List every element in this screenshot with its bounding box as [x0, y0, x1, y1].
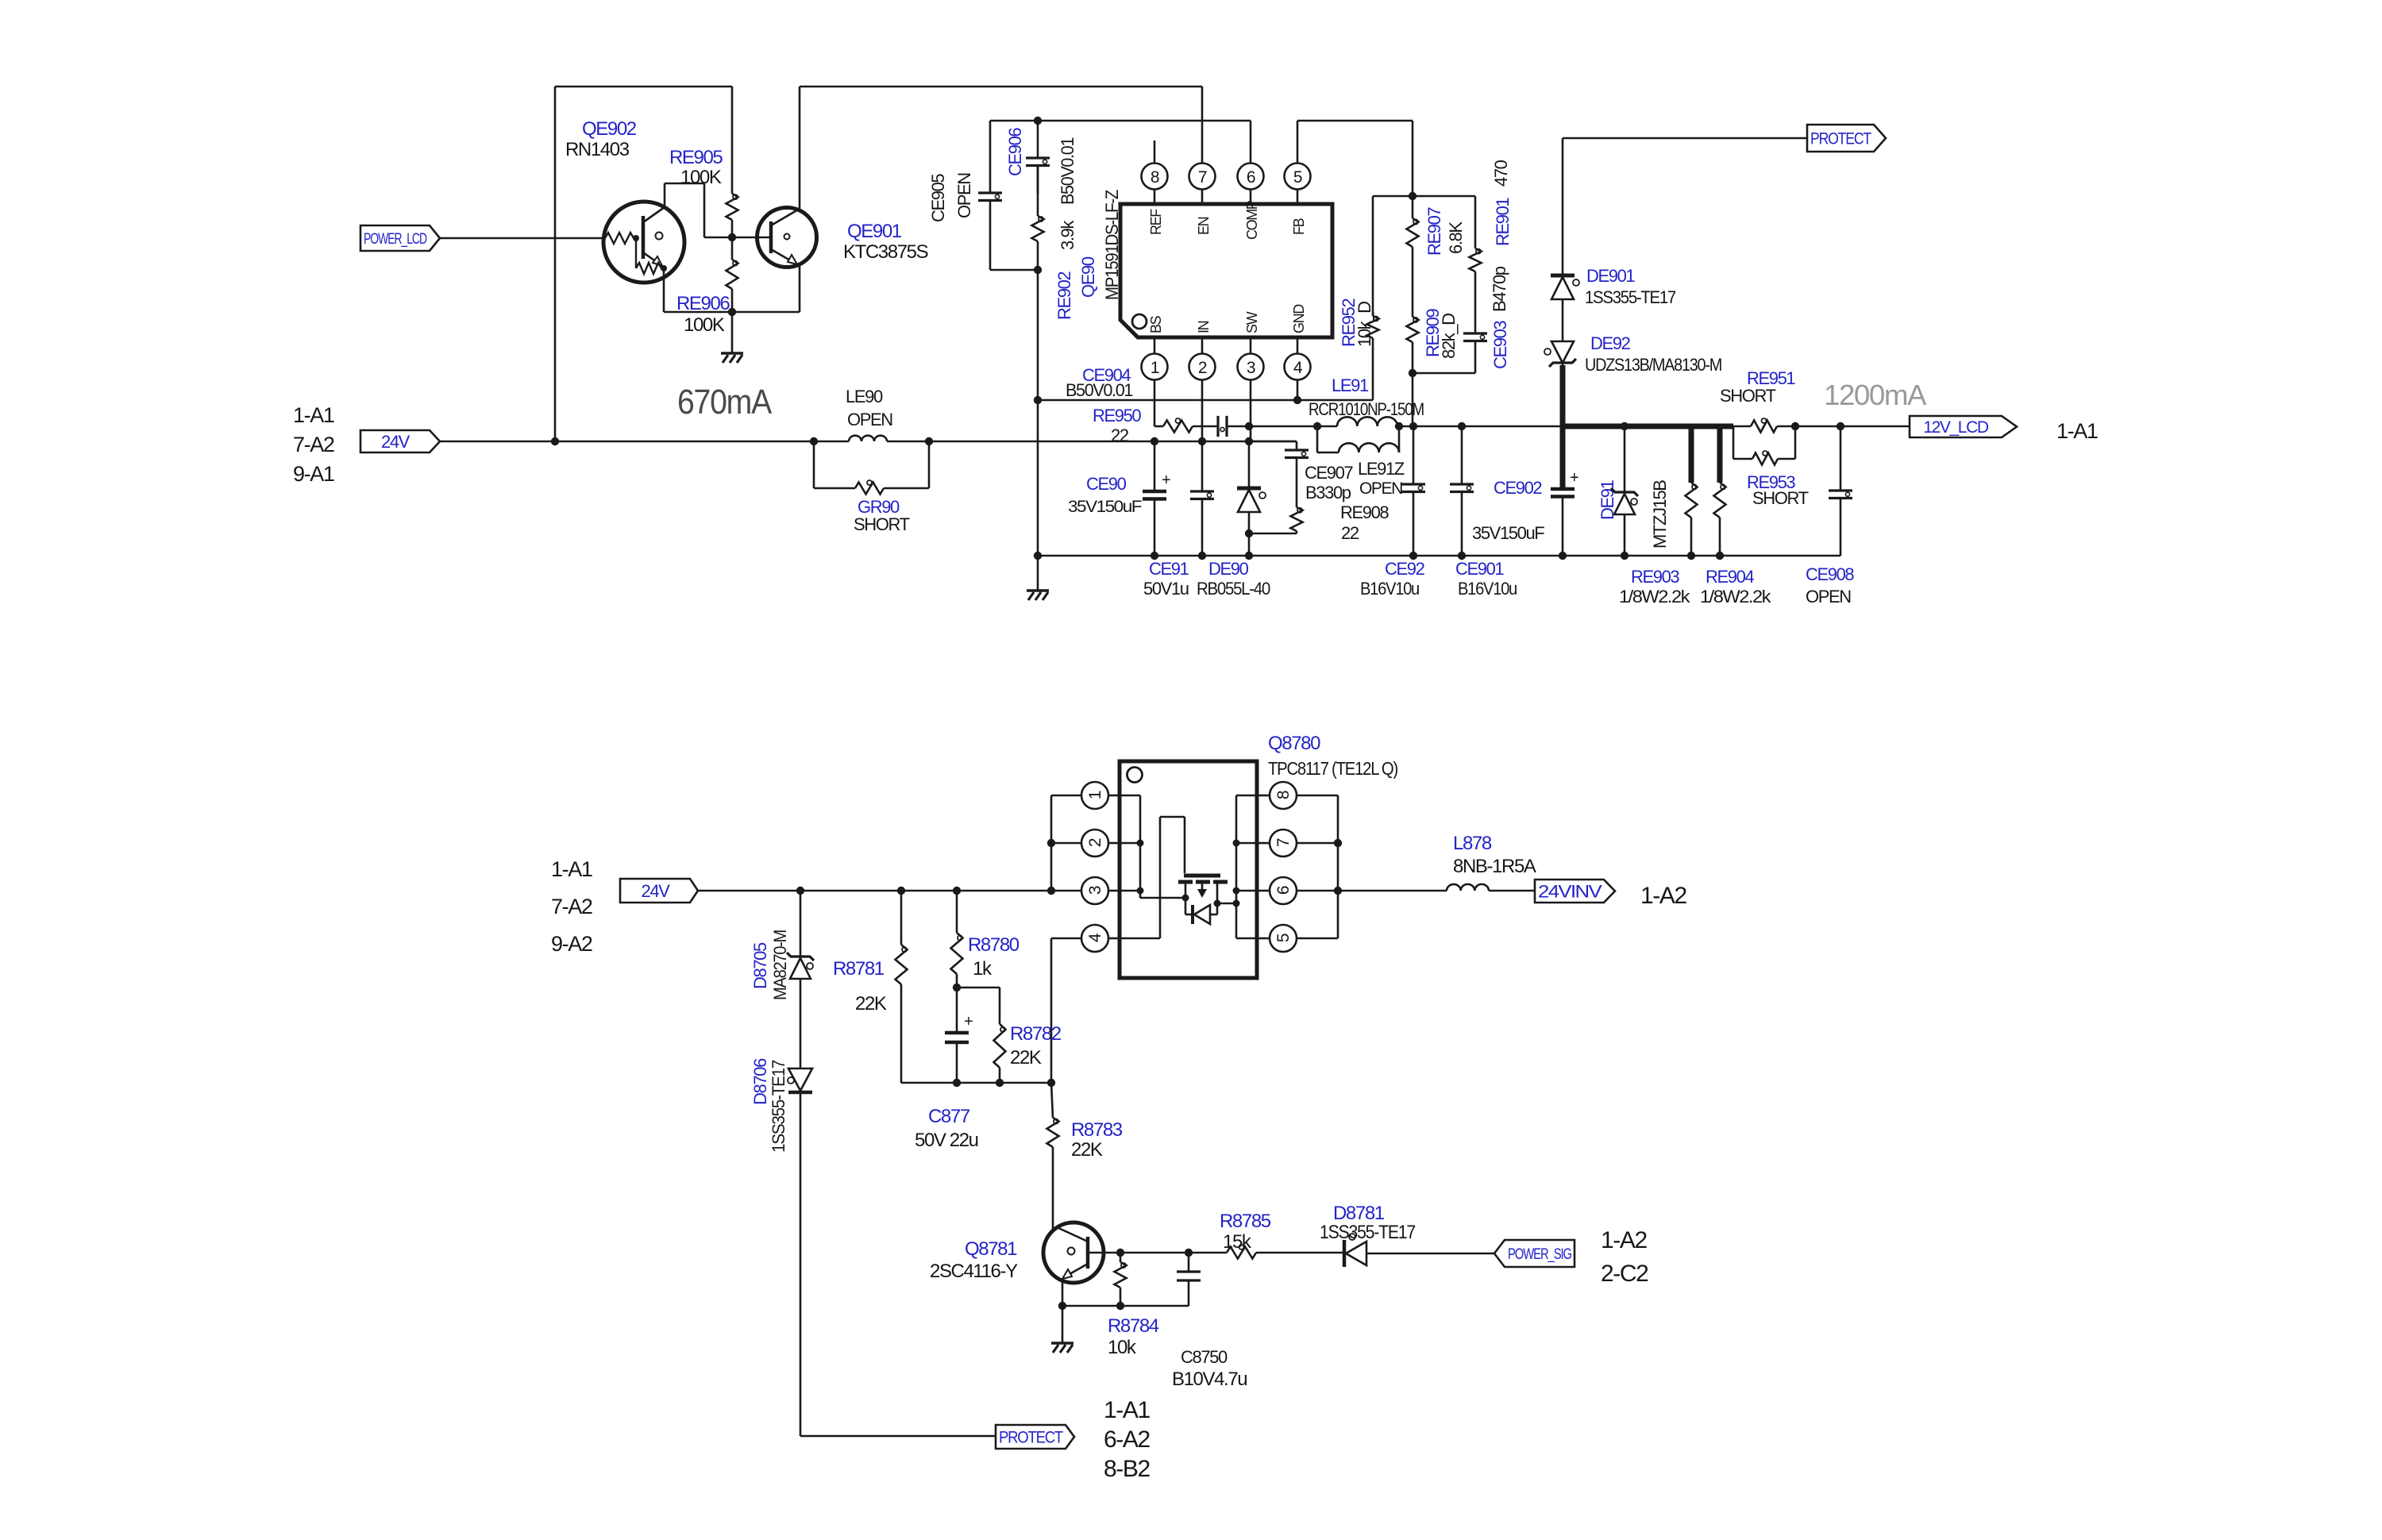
pin label EN	[1196, 217, 1212, 235]
label R8784	[1108, 1315, 1159, 1337]
svg-text:1-A1: 1-A1	[1104, 1397, 1150, 1423]
svg-text:QE902: QE902	[582, 118, 637, 140]
label C877	[928, 1106, 970, 1127]
svg-text:CE908: CE908	[1806, 564, 1854, 584]
capacitor C8750 B10V4.7u	[1177, 1253, 1201, 1306]
svg-text:RE906: RE906	[676, 293, 730, 314]
node GR90 left	[810, 437, 818, 445]
node C8750 top	[1185, 1249, 1193, 1257]
svg-text:15k: 15k	[1223, 1231, 1252, 1253]
svg-text:82k_D: 82k_D	[1439, 314, 1459, 359]
label L878	[1453, 833, 1492, 854]
pin 5 circle	[1285, 164, 1311, 205]
svg-text:RE907: RE907	[1424, 207, 1444, 256]
node DE90 anode	[1245, 529, 1253, 537]
label CE92 value B16V10u	[1360, 579, 1419, 599]
svg-text:6-A2: 6-A2	[1104, 1426, 1150, 1453]
svg-text:D8781: D8781	[1333, 1203, 1385, 1224]
svg-text:OPEN: OPEN	[1359, 479, 1402, 498]
node bottom rail x1968	[1559, 552, 1567, 560]
label CE92	[1385, 559, 1425, 579]
node 24V/QE902-box	[551, 437, 559, 445]
wire COMP drop to pin6	[1250, 121, 1252, 164]
label QE90	[1078, 256, 1098, 298]
text pin ref 9-A2 bottom	[551, 932, 592, 956]
node bottom rail x1307	[1034, 552, 1042, 560]
svg-text:9-A1: 9-A1	[293, 462, 334, 486]
svg-text:1: 1	[1151, 359, 1159, 377]
node R8782 bottom	[996, 1079, 1004, 1087]
mosfet Q8780 body diode	[1185, 898, 1217, 924]
wire QE902 collector to node	[704, 237, 757, 239]
label CE906 value B50V0.01	[1058, 137, 1077, 205]
label R8785 value 15k	[1223, 1231, 1252, 1253]
node pin bus top	[1047, 887, 1055, 895]
svg-text:QE90: QE90	[1078, 256, 1098, 298]
text pin ref 7-A2	[293, 433, 334, 456]
node LE91 left	[1313, 422, 1321, 430]
mosfet Q8780 gate bar	[1184, 874, 1220, 878]
pin 6 circle	[1238, 164, 1264, 205]
node bottom rail x1780	[1409, 552, 1417, 560]
svg-text:12V_LCD: 12V_LCD	[1923, 418, 1988, 437]
svg-text:RE905: RE905	[669, 147, 723, 168]
svg-text:1-A1: 1-A1	[551, 857, 592, 881]
svg-text:3: 3	[1086, 886, 1104, 895]
svg-text:LE90: LE90	[846, 387, 883, 406]
transistor QE902	[603, 183, 704, 312]
wire pin3 stub	[1250, 380, 1252, 442]
label CE905 OPEN	[954, 173, 974, 218]
svg-text:BS: BS	[1148, 315, 1164, 333]
svg-text:8NB-1R5A: 8NB-1R5A	[1453, 856, 1536, 877]
svg-text:7: 7	[1198, 168, 1207, 187]
Q8780 pin 4 circle	[1081, 925, 1120, 952]
node GND line left	[1034, 396, 1042, 404]
label RE908 value 22	[1341, 523, 1359, 543]
wire base to R8785	[1120, 1252, 1227, 1254]
label CE905	[928, 174, 948, 222]
svg-text:L878: L878	[1453, 833, 1492, 854]
svg-text:CE90: CE90	[1086, 474, 1127, 494]
node CE906 top	[1034, 117, 1042, 125]
diode D8781 1SS355-TE17	[1344, 1234, 1494, 1267]
svg-text:UDZS13B/MA8130-M: UDZS13B/MA8130-M	[1585, 355, 1721, 375]
zener DE92 UDZS13B	[1544, 341, 1576, 426]
svg-text:1SS355-TE17: 1SS355-TE17	[1320, 1222, 1416, 1243]
wire QE901 emitter drop	[798, 264, 800, 312]
svg-text:RE908: RE908	[1340, 502, 1389, 522]
label DE901	[1586, 266, 1635, 286]
text pin ref 2-C2 sig	[1601, 1261, 1648, 1287]
node bottom rail x1573	[1245, 552, 1253, 560]
node emitter rail left	[1058, 1302, 1066, 1310]
wire QE902 box left	[554, 87, 557, 441]
mosfet Q8780 channel	[1178, 880, 1228, 884]
svg-text:SW: SW	[1244, 311, 1260, 333]
pin label COMP	[1244, 200, 1260, 240]
label DE90 value RB055L-40	[1197, 579, 1270, 599]
wire pin4 branch	[1051, 938, 1081, 1083]
node Q8780 int drain	[1233, 900, 1240, 907]
svg-text:7-A2: 7-A2	[551, 895, 592, 918]
wire FB rail	[1297, 120, 1413, 122]
wire FB divider drop	[1412, 121, 1414, 196]
node R8781 top	[897, 887, 905, 895]
text pin ref 6-A2 protect	[1104, 1426, 1150, 1453]
text 670mA	[677, 383, 773, 422]
svg-text:50V 22u: 50V 22u	[915, 1130, 978, 1151]
label CE903 value B470p	[1490, 266, 1509, 312]
svg-text:Q8780: Q8780	[1268, 733, 1320, 754]
Q8780 pin 6 circle	[1257, 877, 1297, 904]
label R8783	[1071, 1119, 1123, 1141]
svg-text:22K: 22K	[855, 993, 887, 1014]
svg-text:CE901: CE901	[1455, 559, 1504, 579]
svg-text:RE903: RE903	[1631, 567, 1679, 587]
pin label SW	[1244, 311, 1260, 333]
node pin4 GND	[1293, 396, 1301, 404]
label RE906 value 100K	[684, 314, 725, 336]
svg-text:REF: REF	[1148, 209, 1164, 235]
wire POWER_LCD to QE902 base	[440, 237, 605, 240]
IC pin1 marker circle	[1132, 314, 1147, 329]
svg-text:8: 8	[1274, 791, 1293, 799]
svg-text:SHORT: SHORT	[1752, 488, 1809, 508]
wire Q8781 emitter drop	[1062, 1280, 1064, 1306]
label DE91 value MTZJ15B	[1650, 480, 1670, 549]
inductor LE91 second winding	[1339, 443, 1399, 452]
pin label FB	[1291, 218, 1307, 235]
pin label REF	[1148, 209, 1164, 235]
svg-text:B470p: B470p	[1490, 266, 1509, 312]
wire FB drop to pin5	[1297, 121, 1299, 164]
node FB divider top	[1409, 192, 1416, 200]
wire output rail left	[1399, 425, 1563, 428]
net label 24VINV	[1535, 880, 1615, 903]
svg-text:OPEN: OPEN	[954, 173, 974, 218]
label D8705	[750, 942, 770, 989]
wire LE91 parallel branch	[1317, 426, 1399, 452]
svg-text:3.9k: 3.9k	[1058, 220, 1077, 250]
node pin4 drop	[1047, 1079, 1055, 1087]
wire pin1 branch	[1051, 795, 1081, 891]
wire emitter rail	[664, 311, 800, 314]
text pin ref 1-A2 sig	[1601, 1227, 1647, 1253]
node CE908 top	[1837, 422, 1844, 430]
svg-text:RN1403: RN1403	[565, 139, 630, 160]
wire CE905 bottom join	[990, 269, 1038, 271]
label DE91	[1598, 479, 1617, 520]
wire FB to output	[1412, 373, 1414, 426]
resistor RE904 2.2k	[1714, 483, 1726, 556]
Q8780 pin 7 circle	[1257, 830, 1297, 857]
svg-text:C877: C877	[928, 1106, 970, 1127]
label RE902 value 3.9k	[1058, 220, 1077, 250]
svg-text:22K: 22K	[1010, 1047, 1042, 1068]
node compensation bottom	[1034, 266, 1042, 274]
wire RC bottom rail	[901, 1082, 1051, 1084]
wire pin4 stub	[1297, 380, 1299, 401]
label CE906	[1005, 128, 1025, 176]
svg-text:24V: 24V	[381, 432, 410, 452]
label CE91 value 50V1u	[1143, 579, 1189, 599]
node bottom rail x2046	[1621, 552, 1628, 560]
label RN1403	[565, 139, 630, 160]
label RE953	[1747, 472, 1795, 492]
ground below RE906	[721, 312, 743, 363]
node Q8780 int pin7	[1233, 840, 1240, 847]
label R8780	[968, 934, 1019, 956]
text pin ref 9-A1	[293, 462, 334, 486]
label RE904	[1706, 567, 1754, 587]
net label 12V_LCD	[1910, 416, 2017, 437]
label LE91Z	[1358, 459, 1405, 479]
resistor R8781 22K	[896, 891, 908, 1083]
svg-text:SHORT: SHORT	[1720, 386, 1776, 406]
transistor QE901	[757, 208, 817, 268]
label R8781 value 22K	[855, 993, 887, 1014]
svg-text:R8783: R8783	[1071, 1119, 1123, 1141]
svg-text:B16V10u: B16V10u	[1360, 579, 1419, 599]
label CE91	[1149, 559, 1189, 579]
resistor GR90 SHORT bypass	[814, 441, 929, 495]
svg-text:R8782: R8782	[1010, 1023, 1062, 1045]
svg-text:9-A2: 9-A2	[551, 932, 592, 956]
node SW pin3	[1245, 437, 1253, 445]
capacitor CE908 OPEN	[1829, 426, 1852, 556]
svg-text:DE90: DE90	[1208, 559, 1249, 579]
svg-text:B50V0.01: B50V0.01	[1058, 137, 1077, 205]
label D8781 value 1SS355-TE17	[1320, 1222, 1416, 1243]
resistor RE902 3.9k	[1032, 166, 1044, 271]
label LE91Z OPEN	[1359, 479, 1402, 498]
wire to PROTECT bottom	[800, 1435, 996, 1438]
svg-text:CE902: CE902	[1494, 478, 1542, 498]
label CE904 value B50V0.01	[1066, 380, 1133, 400]
label RE951	[1747, 368, 1795, 388]
svg-text:GND: GND	[1291, 304, 1307, 333]
label CE903	[1490, 321, 1510, 369]
wire output rail bold	[1563, 365, 1733, 489]
wire 24V rail	[440, 441, 1297, 443]
ground below Q8781	[1051, 1306, 1073, 1353]
capacitor CE907 B330p	[1285, 441, 1309, 507]
svg-text:1/8W2.2k: 1/8W2.2k	[1700, 587, 1772, 606]
zener DE91 MTZJ15B	[1611, 426, 1638, 556]
label RE950	[1093, 406, 1141, 425]
text pin ref 8-B2 protect	[1104, 1456, 1150, 1482]
wire pin1 stub	[1154, 380, 1156, 427]
svg-text:100K: 100K	[680, 167, 722, 188]
node bottom rail x1514	[1198, 552, 1206, 560]
svg-text:EN: EN	[1196, 217, 1212, 235]
svg-text:24V: 24V	[642, 881, 671, 901]
label RE953 SHORT	[1752, 488, 1809, 508]
label RE952 value 10k_D	[1355, 302, 1374, 347]
svg-text:1-A1: 1-A1	[2056, 419, 2098, 443]
Q8780 pin 3 circle	[1081, 877, 1120, 904]
svg-text:CE907: CE907	[1305, 463, 1353, 483]
svg-text:IN: IN	[1196, 321, 1212, 333]
label Q8780	[1268, 733, 1320, 754]
label D8706 value 1SS355-TE17	[769, 1060, 788, 1153]
svg-text:PROTECT: PROTECT	[1810, 130, 1871, 148]
label RE901 470	[1491, 160, 1511, 187]
wire 24V rail bottom	[698, 890, 1081, 892]
capacitor CE92 B16V10u	[1401, 426, 1425, 556]
text pin ref 1-A1 right	[2056, 419, 2098, 443]
svg-text:4: 4	[1086, 933, 1104, 942]
svg-text:5: 5	[1293, 168, 1302, 187]
svg-text:6: 6	[1247, 168, 1255, 187]
wire emitter rail bottom	[1062, 1305, 1189, 1307]
label RE905 value 100K	[680, 167, 722, 188]
label R8784 value 10k	[1108, 1337, 1137, 1358]
label L878 value 8NB-1R5A	[1453, 856, 1536, 877]
wire ground riser x1307	[1037, 270, 1039, 591]
mosfet Q8780 drain lead	[1214, 882, 1237, 907]
pin 8 circle	[1142, 164, 1168, 205]
label D8781	[1333, 1203, 1385, 1224]
node RE951 right	[1791, 422, 1799, 430]
svg-text:3: 3	[1247, 359, 1255, 377]
svg-text:100K: 100K	[684, 314, 725, 336]
text pin ref 1-A1	[293, 403, 334, 427]
label LE91	[1332, 375, 1369, 395]
label LE90 OPEN	[847, 410, 892, 429]
svg-text:2: 2	[1198, 359, 1207, 377]
resistor R8782 22K	[957, 988, 1006, 1083]
net label 24V (top)	[360, 430, 440, 452]
svg-text:B50V0.01: B50V0.01	[1066, 380, 1133, 400]
pin 3 circle	[1238, 337, 1264, 380]
node SW bootstrap	[1245, 422, 1253, 430]
text pin ref 1-A1 bottom	[551, 857, 592, 881]
node C877 bottom	[953, 1079, 961, 1087]
wire to L878	[1338, 890, 1447, 892]
wire QE901 collector riser	[799, 87, 801, 209]
svg-text:22: 22	[1111, 425, 1129, 445]
label C877 value 50V 22u	[915, 1130, 978, 1151]
svg-text:MTZJ15B: MTZJ15B	[1650, 480, 1670, 549]
label CE902	[1494, 478, 1542, 498]
label RE906	[676, 293, 730, 314]
Q8780 pin 1 circle	[1081, 782, 1120, 809]
label RE907	[1424, 207, 1444, 256]
net label PROTECT (bottom)	[996, 1425, 1074, 1449]
resistor R8785 15k	[1227, 1245, 1344, 1259]
label DE92 value	[1585, 355, 1721, 375]
inductor LE90 OPEN	[849, 436, 887, 441]
Q8780 pin 2 circle	[1081, 830, 1120, 857]
label CE901	[1455, 559, 1504, 579]
label GR90	[858, 497, 900, 517]
svg-text:OPEN: OPEN	[1806, 587, 1851, 606]
svg-text:7: 7	[1274, 838, 1293, 847]
transistor Q8781 2SC4116-Y	[1043, 1222, 1104, 1283]
svg-text:10k_D: 10k_D	[1355, 302, 1374, 347]
label RE950 value 22	[1111, 425, 1129, 445]
label D8705 value MA8270-M	[770, 930, 790, 1000]
diode DE90 RB055L-40	[1237, 441, 1266, 556]
wire Q8780 gate path	[1120, 817, 1185, 938]
svg-text:POWER_LCD: POWER_LCD	[364, 231, 426, 248]
label R8781	[833, 958, 885, 980]
label RE902	[1054, 271, 1074, 320]
svg-text:2SC4116-Y: 2SC4116-Y	[930, 1261, 1018, 1282]
label R8780 value 1k	[973, 958, 992, 980]
svg-text:FB: FB	[1291, 218, 1307, 235]
svg-text:22K: 22K	[1071, 1139, 1103, 1161]
svg-text:RB055L-40: RB055L-40	[1197, 579, 1270, 599]
node GR90 right	[925, 437, 933, 445]
svg-text:RE902: RE902	[1054, 271, 1074, 320]
text pin ref 7-A2 bottom	[551, 895, 592, 918]
svg-text:D8705: D8705	[750, 942, 770, 989]
label CE908 OPEN	[1806, 587, 1851, 606]
resistor RE906 100K	[727, 237, 738, 312]
capacitor CE902 35V150uF	[1551, 469, 1578, 556]
capacitor CE905 OPEN	[978, 121, 1002, 270]
wire QE902 box top	[555, 86, 732, 88]
node right bus pin7	[1334, 839, 1342, 847]
label DE92	[1590, 333, 1631, 353]
svg-text:R8784: R8784	[1108, 1315, 1159, 1337]
label R8785	[1220, 1211, 1271, 1232]
resistor RE903 2.2k	[1686, 483, 1698, 556]
wire output rail right	[1795, 425, 1910, 428]
diode DE901 1SS355-TE17	[1551, 275, 1579, 341]
svg-text:1-A1: 1-A1	[293, 403, 334, 427]
label QE902	[582, 118, 637, 140]
label DE90	[1208, 559, 1249, 579]
svg-text:LE91: LE91	[1332, 375, 1369, 395]
resistor RE951 SHORT	[1733, 418, 1795, 433]
node base/R8784	[1116, 1249, 1124, 1257]
label RE905	[669, 147, 723, 168]
net label 24V (bottom)	[620, 879, 698, 903]
diode D8706 1SS355-TE17	[788, 1068, 812, 1436]
svg-text:R8780: R8780	[968, 934, 1019, 956]
label R8783 value 22K	[1071, 1139, 1103, 1161]
wire Q8780 source bus	[1120, 795, 1185, 898]
svg-text:10k: 10k	[1108, 1337, 1137, 1358]
pin 1 circle	[1142, 337, 1168, 380]
pin 8 stub up	[1154, 141, 1156, 164]
label TPC8117	[1268, 758, 1398, 779]
svg-text:1-A2: 1-A2	[1640, 883, 1686, 909]
svg-text:6: 6	[1274, 886, 1293, 895]
text 1200mA	[1824, 379, 1926, 411]
pin label GND	[1291, 304, 1307, 333]
svg-text:COMP: COMP	[1244, 200, 1260, 240]
svg-text:1SS355-TE17: 1SS355-TE17	[769, 1060, 788, 1153]
svg-text:D8706: D8706	[750, 1058, 770, 1105]
svg-text:7-A2: 7-A2	[293, 433, 334, 456]
capacitor CE90 35V150uF	[1143, 441, 1170, 556]
inductor LE91 RCR1010NP-150M	[1337, 417, 1397, 426]
label GR90 SHORT	[854, 514, 910, 534]
svg-text:RCR1010NP-150M: RCR1010NP-150M	[1309, 399, 1424, 419]
node Q8780 int pin3	[1137, 887, 1144, 895]
svg-text:CE91: CE91	[1149, 559, 1189, 579]
label RE904 value	[1700, 587, 1772, 606]
wire divider bottom branch	[1413, 372, 1475, 375]
capacitor CE906	[1026, 121, 1050, 194]
zener D8705 MA8270-M	[787, 891, 814, 1068]
svg-text:1200mA: 1200mA	[1824, 379, 1926, 411]
